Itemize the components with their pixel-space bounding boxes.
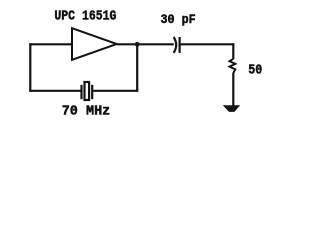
crystal Y1 body: [85, 82, 90, 100]
svg-text:50: 50: [248, 64, 262, 79]
svg-text:30 pF: 30 pF: [161, 12, 196, 27]
resistor R1 zigzag: [230, 59, 236, 73]
wire loop bottom left (to crystal): [29, 90, 80, 92]
crystal Y1 left plate: [80, 85, 82, 99]
svg-text:UPC 1651G: UPC 1651G: [54, 9, 116, 24]
op-amp U1 (UPC 1651G amplifier triangle): [72, 28, 117, 60]
wire loop bottom right (crystal to corner): [93, 90, 138, 92]
node junction at amp output / feedback: [135, 42, 140, 47]
svg-text:70 MHz: 70 MHz: [62, 104, 111, 119]
capacitor C1 curved plate: [174, 37, 177, 53]
wire input (loop top): [29, 43, 72, 45]
wire amp output: [117, 43, 174, 45]
wire corner down to resistor: [232, 43, 234, 59]
capacitor C1 straight plate: [179, 37, 181, 53]
ground symbol: [223, 105, 240, 112]
wire capacitor to corner: [180, 43, 234, 45]
wire resistor to ground: [232, 73, 234, 106]
crystal Y1 right plate: [91, 85, 93, 99]
wire loop right vertical: [136, 44, 138, 91]
wire loop left vertical: [29, 43, 31, 91]
